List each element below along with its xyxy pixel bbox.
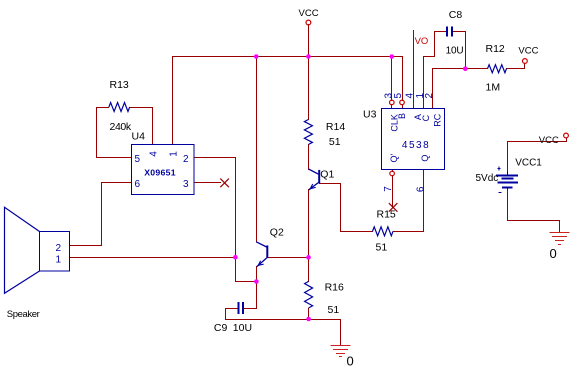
svg-text:RC: RC	[432, 113, 442, 126]
svg-text:C9: C9	[214, 322, 228, 334]
svg-text:U3: U3	[363, 108, 377, 120]
svg-text:2: 2	[56, 243, 62, 254]
svg-text:2: 2	[424, 92, 435, 98]
svg-text:VO: VO	[415, 36, 429, 47]
svg-text:6: 6	[135, 179, 141, 190]
svg-text:Q1: Q1	[320, 169, 334, 181]
svg-text:10U: 10U	[233, 322, 252, 334]
svg-text:R13: R13	[110, 79, 129, 91]
svg-text:B: B	[397, 113, 407, 119]
svg-text:Q: Q	[420, 155, 430, 162]
svg-text:1: 1	[56, 254, 62, 265]
svg-text:U4: U4	[132, 130, 146, 142]
svg-text:Speaker: Speaker	[7, 309, 40, 320]
svg-text:R16: R16	[325, 281, 344, 293]
svg-text:Q': Q'	[389, 153, 399, 162]
svg-text:6: 6	[416, 186, 427, 192]
svg-text:VCC1: VCC1	[515, 157, 542, 168]
svg-text:1: 1	[169, 151, 180, 157]
svg-text:5: 5	[135, 154, 141, 165]
svg-text:4538: 4538	[402, 140, 430, 151]
svg-text:5: 5	[393, 92, 404, 98]
svg-text:Q2: Q2	[270, 226, 284, 238]
svg-text:VCC: VCC	[518, 46, 538, 57]
svg-text:R12: R12	[486, 43, 505, 55]
svg-text:R14: R14	[326, 121, 345, 133]
svg-text:51: 51	[328, 304, 340, 316]
svg-text:VCC: VCC	[539, 135, 559, 146]
svg-text:VCC: VCC	[299, 8, 319, 19]
svg-text:4: 4	[148, 151, 159, 157]
svg-text:C8: C8	[449, 9, 463, 21]
svg-text:2: 2	[183, 154, 189, 165]
svg-text:0: 0	[347, 353, 354, 368]
svg-text:0: 0	[550, 246, 557, 261]
svg-text:240k: 240k	[110, 121, 132, 133]
svg-text:R15: R15	[377, 208, 396, 220]
svg-text:3: 3	[183, 179, 189, 190]
svg-text:C: C	[421, 114, 431, 121]
svg-text:10U: 10U	[446, 46, 464, 57]
svg-text:51: 51	[376, 242, 388, 254]
svg-text:1M: 1M	[486, 82, 501, 94]
svg-text:X09651: X09651	[144, 167, 176, 177]
svg-text:51: 51	[329, 136, 341, 148]
svg-text:5Vdc: 5Vdc	[476, 173, 499, 184]
svg-text:7: 7	[383, 186, 394, 192]
